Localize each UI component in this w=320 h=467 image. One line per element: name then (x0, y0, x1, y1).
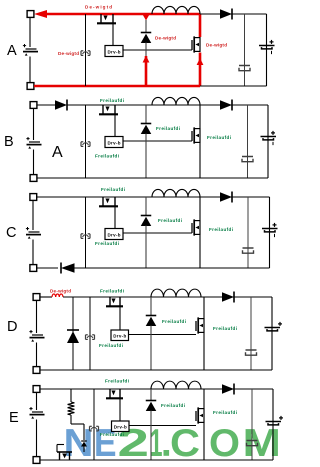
wire resistor branch bottom E (70, 415, 72, 424)
wire top rail left D (40, 296, 52, 298)
svg-text:Freilaufdi: Freilaufdi (161, 403, 185, 408)
diode D4 freewheel B (141, 123, 152, 125)
op-amp U1 driver box A (105, 46, 123, 57)
arrowhead red up nmos A (197, 58, 204, 65)
wire nmos source C (199, 235, 201, 268)
capacitor C5 mid C (243, 247, 254, 249)
resistor R1 E (68, 402, 75, 415)
node input terminal bottom-left A (27, 83, 34, 90)
fuse sense symbol A (80, 51, 82, 56)
wire bottom rail D (40, 369, 272, 371)
diode D2 output A (220, 9, 232, 19)
wire bottom rail red highlighted A (34, 85, 200, 88)
node input terminal bottom-left C (30, 265, 37, 272)
wire freewheel upper D (150, 297, 152, 316)
wire bottom rail B (37, 177, 268, 179)
wire driver to nmos gate A (123, 49, 192, 51)
wire freewheel upper B (145, 105, 147, 124)
watermark NE21.COM (164, 450, 170, 456)
svg-text:De-wigtd: De-wigtd (85, 5, 112, 10)
op-amp U2 driver box B (105, 137, 123, 148)
node input terminal top-left B (30, 102, 37, 109)
transistor Q1 pmos A (100, 14, 102, 23)
arrowhead current left A (34, 10, 47, 18)
wire top rail B (67, 104, 268, 106)
op-amp U3 driver box C (105, 229, 123, 240)
transistor Q3 pmos B (102, 105, 104, 114)
wire pmos gate to driver D (119, 306, 121, 330)
svg-text:A: A (52, 144, 63, 161)
inductor L-red input filter D (52, 294, 56, 297)
svg-text:Drv-b: Drv-b (113, 334, 126, 339)
wire battery bottom lead B (33, 150, 35, 175)
inductor L5 E (151, 381, 164, 389)
wire freewheel lower A (145, 43, 147, 57)
diode D6 freewheel C (141, 215, 152, 217)
svg-text:M: M (243, 422, 282, 465)
capacitor C2 output A (259, 45, 275, 47)
svg-text:Freilaufdi: Freilaufdi (156, 126, 180, 131)
wire freewheel red segment A (145, 56, 148, 86)
diode D8 bottom return C (61, 263, 75, 273)
wire nmos source B (199, 143, 201, 178)
transistor Q5 pmos C (102, 197, 104, 206)
transistor Q2 nmos A (199, 37, 201, 52)
svg-text:Freilaufdi: Freilaufdi (209, 227, 233, 232)
svg-text:De-wigtd: De-wigtd (206, 43, 227, 48)
transistor Q7 pmos D (109, 297, 111, 306)
diode D5 output B (220, 100, 232, 110)
fuse sense symbol D (85, 335, 87, 340)
battery V-D input source (32, 334, 43, 336)
arrowhead red down freewheel A (143, 15, 150, 21)
capacitor C3 mid B (242, 156, 253, 158)
diode D11 output D (222, 292, 234, 302)
svg-text:Freilaufdi: Freilaufdi (100, 98, 124, 103)
wire nmos drain B (199, 105, 201, 128)
svg-text:Freilaufdi: Freilaufdi (95, 154, 119, 159)
capacitor C10 output E (266, 421, 282, 423)
wire right vertical B (267, 105, 269, 178)
svg-text:Freilaufdi: Freilaufdi (207, 135, 231, 140)
wire right vertical E (272, 389, 274, 460)
wire right vertical C (269, 197, 271, 268)
node input terminal bottom-left E (33, 457, 40, 464)
node input terminal top-left E (33, 386, 40, 393)
wire top rail left B (37, 104, 55, 106)
wire bottom rail left C (37, 267, 58, 269)
battery V-B input source (29, 141, 40, 143)
svg-text:Freilaufdi: Freilaufdi (100, 432, 124, 437)
wire bottom rail right black A (200, 85, 267, 87)
svg-text:Freilaufdi: Freilaufdi (101, 187, 125, 192)
svg-text:Freilaufdi: Freilaufdi (213, 326, 237, 331)
wire freewheel lower D (150, 326, 152, 371)
diode D3 input series B (55, 100, 67, 110)
wire top rail C (37, 196, 270, 198)
wire battery top lead E (36, 392, 38, 410)
svg-text:D: D (7, 319, 17, 335)
inductor L2 B (152, 97, 164, 105)
wire pmos gate to driver B (114, 114, 116, 136)
svg-text:Freilaufdi: Freilaufdi (100, 289, 124, 294)
svg-text:Drv-b: Drv-b (114, 425, 127, 430)
wire nmos drain D (203, 297, 205, 318)
wire mid cap branch C (247, 197, 249, 268)
wire battery bottom lead C (32, 240, 34, 265)
node input terminal top-left A (27, 11, 34, 18)
svg-text:De-wigtd: De-wigtd (50, 289, 71, 294)
diode D9 input shunt D (67, 329, 79, 331)
diode D7 output C (220, 192, 232, 202)
svg-text:Drv-b: Drv-b (108, 233, 121, 238)
diode D1 freewheel A (141, 32, 152, 34)
wire right vertical D (271, 297, 273, 370)
op-amp U5 driver box E (112, 421, 130, 432)
wire bottom rail right C (74, 267, 270, 269)
capacitor C4 output B (261, 136, 277, 138)
inductor L3 C (152, 189, 164, 197)
wire pmos gate to driver C (114, 206, 116, 228)
wire driver to nmos gate D (129, 334, 197, 336)
svg-text:De-wigtd: De-wigtd (58, 51, 79, 56)
svg-text:O: O (209, 422, 240, 465)
wire sense branch B (85, 105, 87, 178)
node input terminal bottom-left B (30, 175, 37, 182)
transistor Q9 low-side on bottom rail E (57, 445, 72, 461)
transistor Q6 nmos C (199, 220, 201, 235)
wire top rail E (40, 388, 273, 390)
svg-text:C: C (6, 225, 16, 241)
fuse sense symbol E (89, 426, 91, 431)
wire nmos drain E (203, 389, 205, 408)
wire freewheel upper A (145, 20, 147, 33)
capacitor C7 mid D (246, 349, 257, 351)
wire nmos source red A (199, 53, 202, 87)
svg-text:E: E (9, 410, 19, 426)
transistor Q10 pmos E (109, 389, 111, 398)
svg-text:Freilaufdi: Freilaufdi (95, 241, 119, 246)
diode D12 small E (81, 441, 87, 447)
svg-text:Drv-b: Drv-b (108, 50, 121, 55)
diode D10 freewheel D (146, 315, 157, 317)
transistor Q8 nmos D (203, 318, 205, 333)
op-amp U4 driver box D (111, 330, 129, 341)
wire freewheel lower B (145, 134, 147, 179)
svg-text:Freilaufdi: Freilaufdi (99, 343, 123, 348)
battery V-E input source (32, 411, 43, 413)
battery A input source (26, 48, 37, 50)
svg-text:Freilaufdi: Freilaufdi (105, 379, 129, 384)
node input terminal top-left D (33, 294, 40, 301)
wire top rail D (63, 296, 272, 298)
wire battery bottom lead A (29, 57, 31, 83)
diode D13 freewheel E (146, 400, 157, 402)
wire right vertical A (266, 14, 268, 86)
wire jog vertical E (83, 424, 85, 440)
svg-text:Freilaufdi: Freilaufdi (213, 410, 237, 415)
wire driver to nmos gate E (129, 425, 196, 427)
svg-text:B: B (4, 134, 14, 150)
wire mid cap branch A (244, 14, 246, 86)
wire jog horizontal E (71, 423, 84, 425)
svg-text:Freilaufdi: Freilaufdi (158, 218, 182, 223)
wire pmos gate to driver A (112, 23, 114, 45)
wire sense branch A (85, 14, 87, 86)
wire mid cap branch B (247, 105, 249, 178)
svg-text:De-wigtd: De-wigtd (155, 36, 176, 41)
arrowhead red up freewheel A (143, 56, 150, 63)
wire top rail red highlighted A (39, 13, 200, 16)
wire battery top lead A (29, 17, 31, 47)
fuse sense symbol B (80, 142, 82, 147)
wire nmos source D (203, 333, 205, 370)
svg-text:Drv-b: Drv-b (108, 141, 121, 146)
wire freewheel upper C (145, 197, 147, 216)
wire battery top lead B (33, 108, 35, 140)
wire resistor branch top E (70, 389, 72, 402)
capacitor C8 output D (265, 327, 281, 329)
wire freewheel upper E (150, 389, 152, 401)
wire freewheel lower C (145, 226, 147, 269)
wire driver to nmos gate B (123, 140, 192, 142)
wire sense branch E (93, 389, 95, 460)
capacitor C9 mid E (247, 440, 258, 442)
battery V-C input source (29, 231, 40, 233)
wire nmos drain red A (199, 14, 202, 37)
wire battery bottom lead E (36, 420, 38, 457)
wire battery bottom lead D (36, 343, 38, 367)
capacitor C6 output C (262, 228, 278, 230)
wire sense branch C (85, 197, 87, 268)
wire driver to nmos gate C (123, 232, 192, 234)
node input terminal top-left C (30, 194, 37, 201)
capacitor C1 mid A (239, 65, 250, 67)
wire top rail right black A (200, 13, 267, 15)
svg-text:C: C (170, 422, 200, 465)
diode D14 output E (222, 384, 234, 394)
wire input diode branch D (72, 297, 74, 370)
transistor Q11 nmos E (203, 408, 205, 423)
wire nmos source E (203, 423, 205, 460)
wire jog lower E (83, 447, 85, 453)
wire freewheel lower E (150, 411, 152, 461)
wire battery top lead C (32, 200, 34, 230)
wire battery top lead D (36, 300, 38, 333)
svg-text:A: A (7, 43, 17, 59)
inductor L4 D (151, 289, 164, 297)
transistor Q4 nmos B (199, 128, 201, 143)
wire bottom rail E (40, 459, 273, 461)
fuse sense symbol C (80, 234, 82, 239)
inductor L1 A (152, 6, 164, 14)
wire mid cap branch E (251, 389, 253, 460)
node input terminal bottom-left D (33, 367, 40, 374)
wire pmos gate to driver E (119, 398, 121, 421)
wire mid cap branch D (250, 297, 252, 370)
svg-text:Freilaufdi: Freilaufdi (162, 319, 186, 324)
wire nmos drain C (199, 197, 201, 220)
wire sense branch D (89, 297, 91, 370)
